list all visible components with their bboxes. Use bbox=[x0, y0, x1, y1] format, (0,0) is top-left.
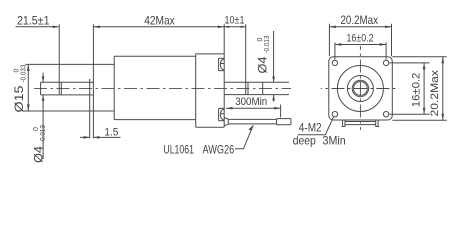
svg-text:10±1: 10±1 bbox=[225, 15, 245, 27]
svg-text:3Min: 3Min bbox=[323, 134, 346, 148]
svg-text:300Min: 300Min bbox=[235, 96, 267, 108]
svg-text:20.2Max: 20.2Max bbox=[341, 13, 379, 27]
svg-text:0: 0 bbox=[33, 127, 40, 131]
svg-text:-0.013: -0.013 bbox=[40, 125, 47, 143]
svg-text:20.2Max: 20.2Max bbox=[429, 69, 441, 116]
svg-text:21.5±1: 21.5±1 bbox=[17, 14, 50, 28]
svg-text:deep: deep bbox=[293, 134, 316, 148]
svg-text:Ø4: Ø4 bbox=[32, 146, 46, 163]
svg-text:UL1061: UL1061 bbox=[163, 143, 194, 157]
svg-text:-0.033: -0.033 bbox=[21, 64, 28, 82]
svg-text:16±0.2: 16±0.2 bbox=[411, 73, 423, 108]
svg-text:-0.013: -0.013 bbox=[264, 35, 271, 53]
svg-text:Ø15: Ø15 bbox=[12, 85, 26, 112]
svg-text:AWG26: AWG26 bbox=[203, 143, 235, 157]
svg-text:16±0.2: 16±0.2 bbox=[347, 32, 374, 44]
svg-text:1.5: 1.5 bbox=[104, 127, 118, 139]
svg-text:4-M2: 4-M2 bbox=[299, 121, 322, 135]
svg-text:0: 0 bbox=[14, 69, 21, 73]
svg-text:0: 0 bbox=[257, 38, 264, 42]
svg-text:Ø4: Ø4 bbox=[256, 56, 270, 73]
svg-text:42Max: 42Max bbox=[144, 14, 175, 28]
